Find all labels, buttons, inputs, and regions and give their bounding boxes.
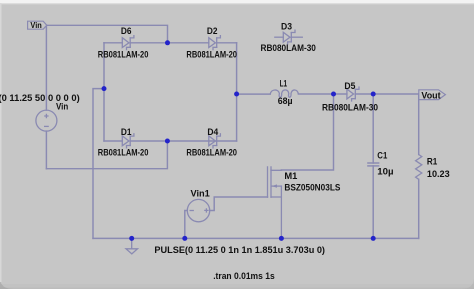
svg-text:Vout: Vout (421, 90, 441, 101)
svg-text:D2: D2 (207, 26, 218, 36)
svg-text:RB081LAM-20: RB081LAM-20 (98, 50, 149, 60)
svg-text:D6: D6 (121, 26, 132, 36)
svg-text:10µ: 10µ (377, 167, 393, 177)
svg-text:RB080LAM-30: RB080LAM-30 (322, 102, 378, 112)
svg-text:D3: D3 (281, 21, 292, 31)
svg-text:L1: L1 (280, 79, 288, 89)
svg-text:D4: D4 (207, 127, 218, 137)
svg-text:Vin: Vin (56, 102, 68, 112)
svg-text:M1: M1 (284, 171, 297, 181)
svg-text:Vin1: Vin1 (191, 188, 210, 198)
svg-text:PULSE(0 11.25 0 1n 1n 1.851u 3: PULSE(0 11.25 0 1n 1n 1.851u 3.703u 0) (154, 245, 325, 255)
svg-text:RB080LAM-30: RB080LAM-30 (261, 43, 316, 53)
svg-text:D1: D1 (121, 127, 132, 137)
svg-text:RB081LAM-20: RB081LAM-20 (186, 50, 237, 60)
svg-text:RB081LAM-20: RB081LAM-20 (186, 147, 237, 157)
svg-text:BSZ050N03LS: BSZ050N03LS (284, 183, 340, 193)
svg-text:C1: C1 (377, 150, 387, 160)
svg-text:RB081LAM-20: RB081LAM-20 (98, 147, 149, 157)
svg-text:.tran 0.01ms 1s: .tran 0.01ms 1s (213, 271, 275, 281)
svg-text:R1: R1 (427, 157, 437, 167)
svg-text:68µ: 68µ (278, 96, 293, 106)
svg-text:10.23: 10.23 (427, 169, 450, 179)
svg-text:D5: D5 (344, 81, 355, 91)
svg-text:Vin: Vin (30, 21, 41, 30)
